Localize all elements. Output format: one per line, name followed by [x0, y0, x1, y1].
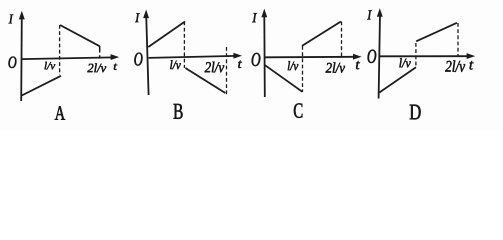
graph D t-axis	[379, 55, 469, 57]
graph B dashed line at l/v	[183, 22, 185, 69]
graph B I-axis arrowhead	[143, 10, 149, 19]
graph B t-axis	[149, 56, 236, 58]
graph D I-axis	[379, 14, 380, 99]
graph B 2l/v label	[205, 62, 225, 73]
graph A t-axis arrowhead	[111, 54, 120, 60]
graph D t-axis arrowhead	[467, 53, 476, 59]
graph D dashed line at l/v	[415, 43, 417, 67]
graph D option letter	[410, 105, 421, 120]
graph D t label	[470, 61, 474, 70]
graph C t label	[356, 61, 360, 69]
graph D I label	[367, 10, 371, 19]
graph A t-axis	[21, 57, 113, 59]
graph B t-axis arrowhead	[233, 53, 242, 59]
graph C I-axis arrowhead	[261, 9, 267, 18]
graph C I label	[252, 13, 257, 22]
graph A I-axis	[20, 16, 23, 101]
graph A t label	[114, 64, 117, 70]
graph A descending ramp l/v to 2l/v	[60, 25, 100, 46]
graph A I label	[9, 15, 14, 24]
graph B O label	[134, 53, 142, 66]
graph D positive ramp l/v to 2l/v	[416, 23, 457, 42]
graph B dashed line at 2l/v	[226, 47, 228, 95]
graph C t-axis	[265, 56, 356, 59]
graph C dashed line at 2l/v	[341, 22, 343, 58]
graph B l/v label	[170, 60, 181, 69]
graph D 2l/v label	[445, 60, 465, 71]
graph C option letter	[294, 103, 303, 117]
graph B option letter	[174, 104, 183, 119]
graph A option letter	[55, 106, 65, 119]
graph A I-axis arrowhead	[19, 11, 25, 20]
graph D O label	[368, 50, 377, 63]
graph A O label	[9, 57, 17, 69]
graph B positive ramp 0 to l/v	[148, 22, 185, 48]
graph C dashed line at l/v	[302, 46, 304, 92]
graph C l/v label	[288, 61, 299, 70]
graph C t-axis arrowhead	[353, 54, 362, 60]
graph B I-axis	[146, 15, 148, 95]
graph A l/v label	[45, 62, 56, 70]
graph D dashed line at 2l/v	[457, 23, 459, 56]
graph D I-axis arrowhead	[377, 8, 383, 17]
graph B negative ramp l/v to 2l/v	[185, 68, 225, 93]
graph A dashed line at l/v	[59, 25, 61, 75]
graph C I-axis	[263, 14, 266, 97]
graph C 2l/v label	[326, 62, 345, 72]
graph A 2l/v label	[87, 63, 106, 72]
graph A drop at 2l/v	[99, 46, 101, 59]
graph C O label	[252, 53, 261, 66]
graph B I label	[135, 13, 139, 22]
graph A negative ramp 0 to l/v	[22, 76, 61, 96]
graph D l/v label	[399, 58, 410, 67]
graph D negative ramp 0 to l/v	[379, 67, 416, 92]
graph C negative ramp 0 to l/v	[265, 65, 302, 92]
graph C positive ramp l/v to 2l/v	[302, 22, 341, 46]
graph B t label	[238, 61, 242, 68]
